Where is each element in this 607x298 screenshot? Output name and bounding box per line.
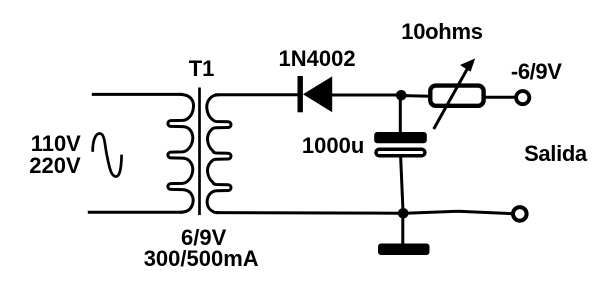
wire diode to node A [332,94,397,97]
wire node B down to ground [401,216,404,245]
wire variable resistor to output terminal [486,96,517,99]
variable resistor R1 body [430,86,483,106]
label 1N4002 [279,48,356,70]
capacitor C1 bottom plate [376,149,425,155]
label Salida [524,143,587,165]
diode D1 cathode bar [298,76,303,112]
label 1000u [302,135,364,157]
label -6/9V [511,61,562,83]
output terminal Salida [513,207,527,221]
label 6/9V [181,227,226,249]
label 300/500mA [144,248,259,270]
wire node B to output terminal [405,211,513,214]
ground [378,244,430,256]
transformer T1 core [198,88,201,216]
label T1 [189,58,215,80]
wire primary bottom [88,211,183,214]
transformer T1 secondary winding [207,95,231,213]
transformer T1 primary winding [168,94,194,212]
wire capacitor to node B [401,156,403,211]
wire secondary bottom to node B [216,211,398,215]
output terminal -6/9V [516,91,529,104]
label 110V [31,133,81,155]
wire primary top [92,93,183,96]
wire secondary top to diode [215,93,298,96]
diode D1 triangle [303,76,332,112]
label 10ohms [401,21,482,43]
node A junction dot [396,90,407,101]
node B junction dot [398,208,409,219]
AC source sine symbol [93,134,122,177]
wire node A down to capacitor [399,98,402,134]
capacitor C1 top plate [374,132,427,143]
label 220V [29,155,80,177]
wire node A to variable resistor [405,94,430,98]
variable resistor R1 arrow [434,58,476,129]
